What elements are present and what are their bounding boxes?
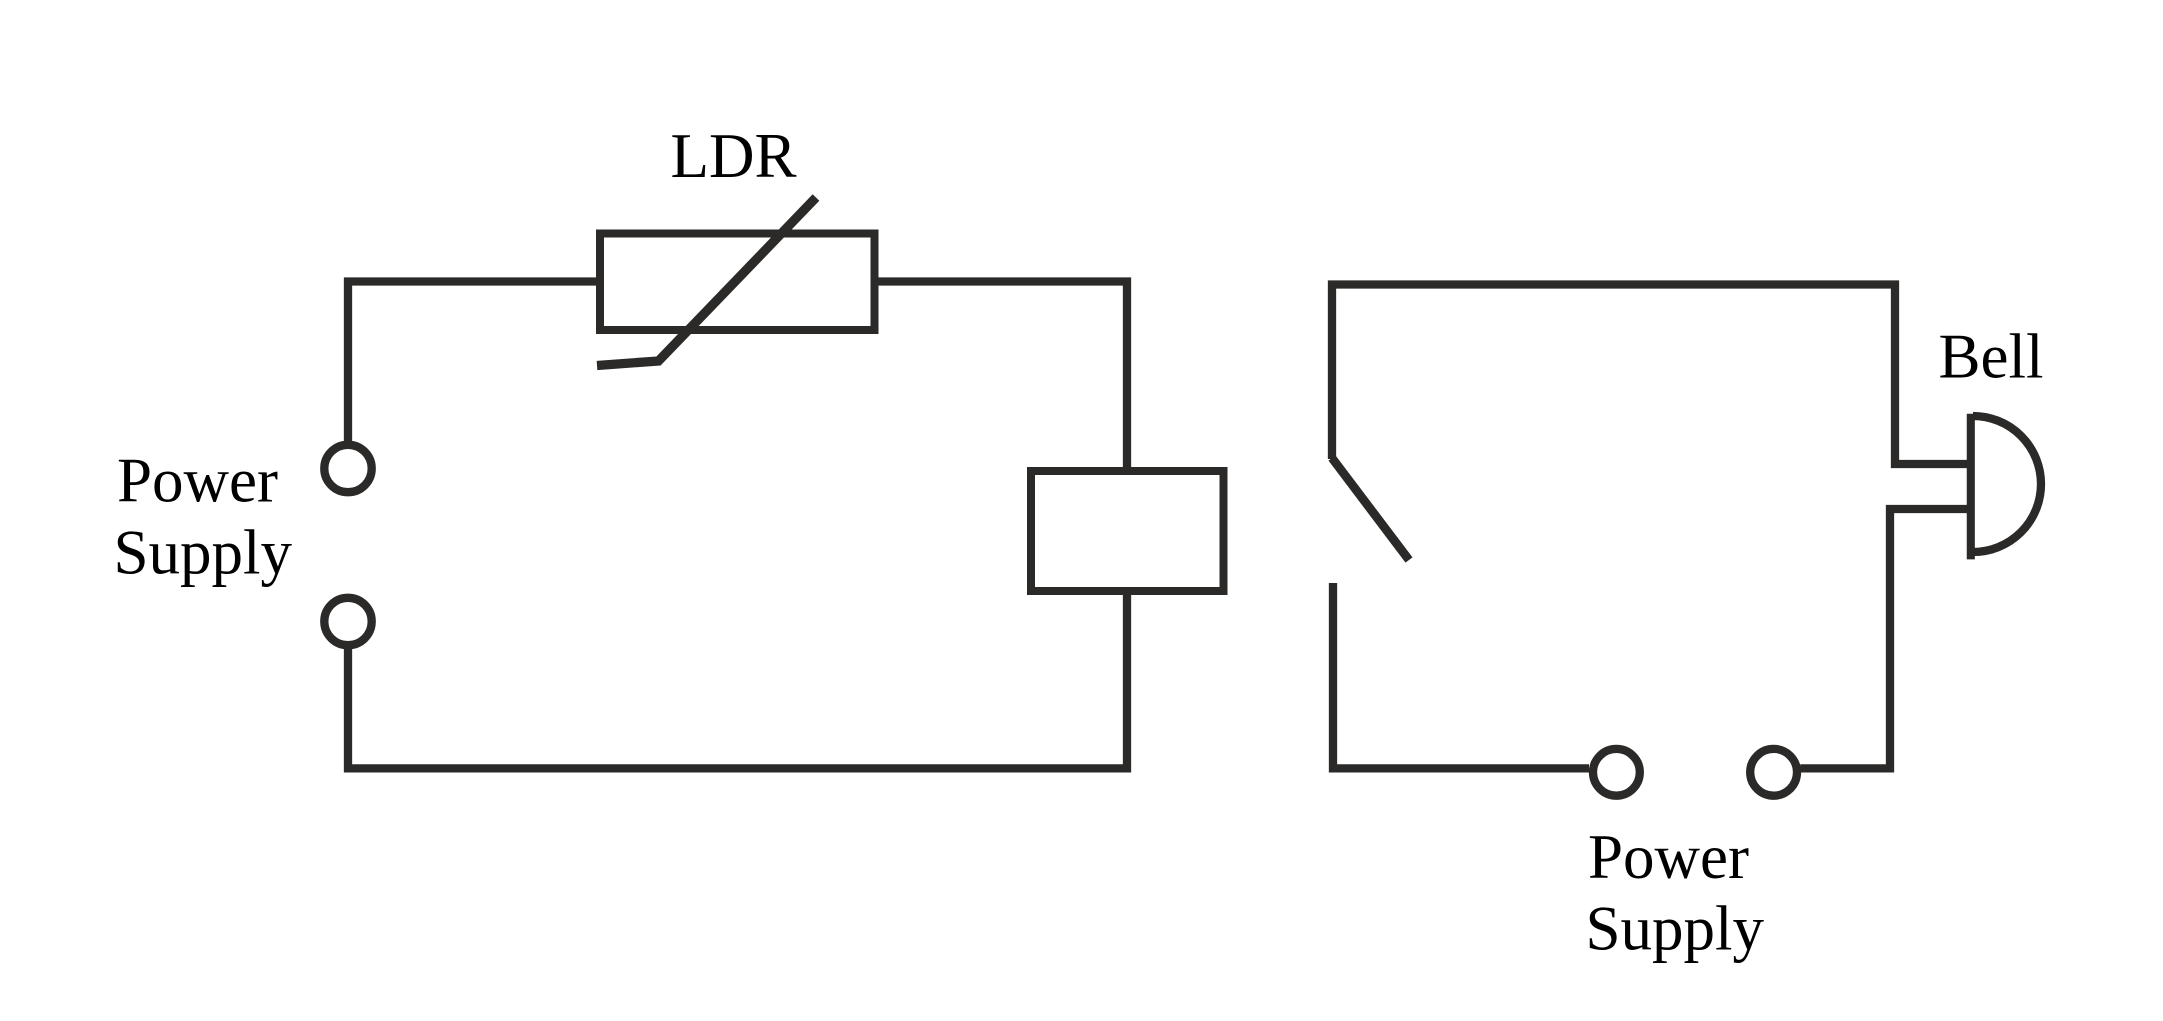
relay coil <box>1031 471 1224 591</box>
svg-text:Bell: Bell <box>1939 322 2044 392</box>
wire: left PSU upper terminal up and right to LDR <box>348 282 601 442</box>
bell striker chord line <box>1967 414 1975 560</box>
svg-text:Supply: Supply <box>114 517 293 587</box>
wire: switch lower contact down and right to right PSU left terminal <box>1333 583 1589 768</box>
bell gong arc <box>1973 416 2041 552</box>
wire: LDR right side to relay coil top <box>875 282 1128 472</box>
terminal circle: right PSU right <box>1750 749 1797 796</box>
terminal circle: right PSU left <box>1593 749 1640 796</box>
resistor LDR body <box>600 234 875 331</box>
wire: right PSU right terminal to bell lower stub <box>1800 509 1971 768</box>
svg-text:LDR: LDR <box>671 121 797 191</box>
svg-text:Power: Power <box>117 446 278 516</box>
svg-text:Supply: Supply <box>1586 893 1765 963</box>
terminal circle: left PSU lower <box>324 598 371 645</box>
svg-text:Power: Power <box>1588 822 1749 892</box>
wire: relay coil bottom, bottom run, up to left PSU lower terminal <box>348 591 1127 768</box>
terminal circle: left PSU upper <box>324 445 371 492</box>
switch blade (open) <box>1332 458 1409 560</box>
wire: switch top contact, top run, right vertical, bell upper stub <box>1332 285 1971 465</box>
LDR diagonal stroke with bent foot <box>597 198 816 366</box>
